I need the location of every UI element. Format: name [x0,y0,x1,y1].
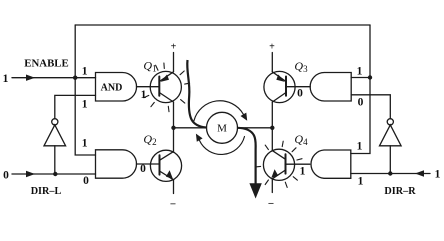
transistor Q3 (PNP, top-right) [264,71,295,102]
svg-text:0: 0 [358,97,364,109]
wire: Q2 emitter to - terminal [173,180,175,194]
node: DIR-R junction [388,171,392,175]
svg-text:Q2: Q2 [143,132,156,147]
svg-text:ENABLE: ENABLE [24,58,68,70]
svg-text:1: 1 [82,66,88,78]
rays around Q4 (active) [257,141,302,187]
svg-text:+: + [171,42,177,53]
svg-text:M: M [217,123,227,135]
rays around Q1 (active) [144,63,190,112]
svg-text:1: 1 [357,66,363,78]
svg-text:1: 1 [357,141,363,153]
wire: Q4 collector to right motor node [271,128,273,151]
node: ENABLE junction [73,76,77,80]
svg-text:1: 1 [3,73,9,85]
wire: ENABLE input lead [12,77,96,79]
wire: Q3 collector to right motor node [271,102,273,128]
svg-text:1: 1 [82,138,88,150]
svg-text:Q3: Q3 [294,59,308,74]
arrow: DIR-R input arrowhead (points left) [415,170,424,176]
AND gate U2 (bottom-left) [96,150,137,178]
wire: Q3 emitter to + supply [271,53,273,72]
wire: motor to right node [238,127,273,129]
rotation arrow (upper arc, clockwise) [194,101,244,121]
transistor Q4 (NPN, bottom-right) [263,149,294,180]
wire: U3 lower input from inverter-R [351,95,390,119]
wire: DIR-R input lead [351,173,430,175]
transistor Q1 (PNP, top-left) [150,71,181,102]
wire: Q1 emitter to + supply [173,53,175,72]
svg-text:0: 0 [3,170,9,182]
AND gate U3 (top-right) [310,73,351,102]
svg-text:Q1: Q1 [143,59,156,74]
svg-text:−: − [170,199,176,211]
wire: ENABLE top rail from left vertical to right vertical [75,24,370,26]
wire: U4 output to Q4 base [286,163,310,165]
AND gate U4 (bottom-right) [311,150,351,178]
current path (thick) through Q1, motor, Q4 [187,60,255,184]
arrow: current path arrowhead [249,183,261,198]
motor M [207,112,238,143]
node: left motor node [171,126,175,130]
svg-text:DIR–R: DIR–R [384,186,416,197]
svg-text:1: 1 [435,169,441,181]
svg-text:1: 1 [82,99,88,111]
svg-text:DIR–L: DIR–L [31,186,62,197]
transistor Q2 (NPN, bottom-left) [150,150,181,181]
node: right bus junction [368,75,372,79]
node: right motor node [270,126,274,130]
svg-text:Q4: Q4 [294,132,308,147]
wire: U3 top input from right bus [351,77,370,79]
node: DIR-L junction [53,172,57,176]
arrow: ENABLE input arrowhead [26,75,35,81]
wire: Q4 emitter to - terminal [271,179,273,193]
inverter X1 (left) [54,146,56,174]
wire: right ENABLE vertical bus [351,25,370,154]
rotation arrow (lower arc, clockwise) [200,137,245,155]
svg-text:−: − [268,198,274,210]
wire: Q1 collector to left motor node [173,102,175,128]
wire: DIR-L input lead [12,173,96,175]
wire: Q2 collector to left motor node [173,128,175,152]
arrow: DIR-L input arrowhead [26,171,35,177]
wire: left node to motor [174,127,207,129]
wire: left ENABLE vertical bus [75,25,95,155]
svg-text:1: 1 [141,89,147,101]
svg-text:0: 0 [83,175,89,187]
wire: U2 output to Q2 base [136,163,159,165]
AND gate U1 (top-left, labelled AND) [96,73,137,102]
wire: U1 output to Q1 base [137,86,160,88]
svg-text:1: 1 [300,166,306,178]
svg-text:1: 1 [358,176,364,188]
svg-text:AND: AND [101,83,123,94]
inverter X2 (right) [389,146,391,174]
svg-text:0: 0 [297,88,303,100]
svg-text:0: 0 [140,163,146,175]
svg-text:+: + [269,42,275,53]
wire: inverter-L output to AND gate lower input [55,95,96,118]
wire: U3 output to Q3 base [286,86,310,88]
